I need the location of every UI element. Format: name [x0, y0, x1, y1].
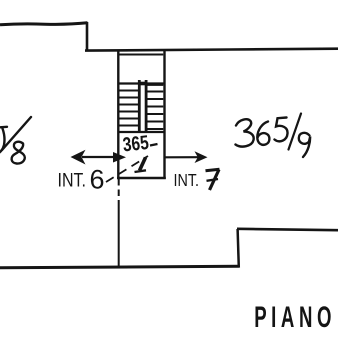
right arrow shaft — [165, 156, 200, 158]
numeral 6 — [257, 122, 269, 145]
numeral 5 — [275, 118, 288, 142]
left arrowhead pointing left — [71, 150, 86, 165]
numeral 3 — [236, 119, 254, 146]
staircase tread-box bottom line — [118, 131, 164, 133]
label 365/9 — [236, 114, 311, 158]
stringer top cap blob — [139, 82, 148, 86]
stair treads left flight — [119, 91, 138, 126]
numeral 9 — [299, 133, 310, 157]
stair treads right flight — [147, 85, 163, 129]
wall bottom-right horizontal — [237, 229, 338, 230]
small arrowhead blob at staircase left wall — [113, 152, 126, 163]
staircase tread-box top line — [118, 82, 164, 84]
left arrow shaft — [82, 156, 119, 158]
staircase right wall — [163, 50, 165, 180]
staircase central stringer right line — [145, 80, 148, 132]
label 365 on staircase — [122, 132, 158, 172]
subscript numeral 1 of 365/1 — [140, 158, 146, 171]
wall bottom-left horizontal — [0, 266, 240, 268]
svg-text:6: 6 — [90, 165, 105, 195]
interior wall below staircase dashed part — [118, 179, 120, 203]
staircase left wall — [117, 50, 119, 179]
crossed seven numeral — [206, 169, 220, 190]
fraction slash of 365/9 — [289, 114, 302, 150]
staircase central stringer left line — [138, 80, 141, 132]
svg-text:PIANO: PIANO — [254, 301, 336, 335]
wall top-left horizontal — [0, 23, 88, 25]
numeral 5 fragment at edge — [0, 126, 7, 129]
right arrowhead pointing right — [195, 151, 208, 163]
label 365/8 (clipped at left edge) — [0, 117, 31, 164]
label INT. 7 — [174, 169, 220, 190]
wall top-left vertical step — [86, 22, 89, 51]
svg-text:365: 365 — [122, 132, 150, 157]
label INT. 6 — [58, 165, 105, 195]
interior wall below staircase solid part — [118, 203, 120, 268]
dashed diagonal leader line through stair base — [106, 156, 148, 182]
wall bottom step vertical — [238, 229, 239, 268]
fraction slash of 365/8 — [2, 117, 31, 150]
numeral 8 — [12, 142, 25, 164]
staircase bottom wall — [117, 177, 166, 180]
svg-text:INT.: INT. — [58, 170, 87, 192]
wall top-right horizontal — [85, 49, 338, 51]
svg-text:INT.: INT. — [174, 170, 200, 190]
stairwell inner top edge line — [120, 54, 164, 56]
